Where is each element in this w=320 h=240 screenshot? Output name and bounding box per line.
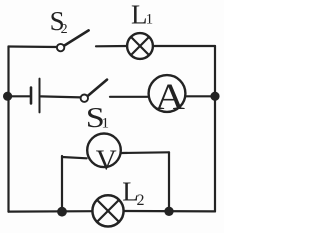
junction node bottom-left bbox=[57, 207, 67, 217]
voltmeter V bbox=[87, 134, 121, 177]
wire voltmeter branch left vertical bbox=[61, 156, 63, 212]
wire top: lamp L1 to right corner bbox=[153, 45, 215, 47]
lamp L1 bbox=[127, 33, 153, 59]
svg-text:1: 1 bbox=[146, 12, 154, 28]
svg-text:2: 2 bbox=[61, 22, 68, 37]
wire left vertical bbox=[7, 47, 9, 212]
wire voltmeter branch right horizontal bbox=[122, 151, 169, 154]
junction node bottom-right bbox=[164, 207, 173, 216]
wire bottom: lamp L2 to right corner bbox=[124, 210, 215, 213]
wire top: corner to S2 bbox=[9, 45, 58, 48]
switch S2 bbox=[57, 30, 89, 51]
wire voltmeter branch right vertical bbox=[168, 152, 170, 211]
switch S1 bbox=[81, 80, 107, 102]
junction node left bbox=[3, 92, 12, 101]
svg-text:2: 2 bbox=[137, 192, 145, 209]
wire right vertical bbox=[214, 46, 216, 211]
svg-text:A: A bbox=[155, 76, 186, 117]
label S2 bbox=[50, 6, 68, 37]
wire middle: S1 to ammeter bbox=[110, 96, 148, 98]
wire middle: battery to S1 bbox=[41, 96, 81, 97]
lamp L2 bbox=[92, 195, 123, 226]
wire voltmeter branch left horizontal bbox=[62, 157, 87, 158]
label S1 bbox=[86, 101, 109, 133]
battery bbox=[31, 79, 40, 113]
ammeter A bbox=[149, 75, 186, 117]
wire bottom: left corner to lamp L2 bbox=[9, 210, 94, 213]
wire middle: ammeter to right edge bbox=[187, 95, 215, 97]
junction node right bbox=[210, 92, 219, 101]
label L1 bbox=[131, 0, 153, 30]
label L2 bbox=[122, 177, 144, 209]
wire top: S2 to lamp L1 bbox=[96, 45, 127, 47]
svg-text:V: V bbox=[96, 145, 117, 177]
svg-text:1: 1 bbox=[102, 116, 110, 132]
wire middle: left edge to battery bbox=[9, 95, 30, 97]
